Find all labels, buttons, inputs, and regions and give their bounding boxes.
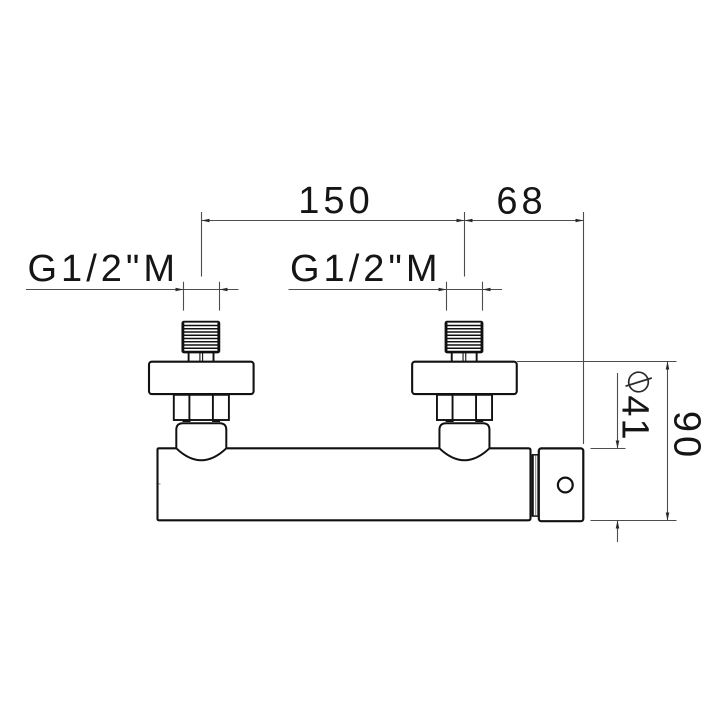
svg-text:41: 41 xyxy=(614,395,656,441)
arrowhead phi41 top xyxy=(616,441,620,449)
arrowhead 68 left xyxy=(465,219,473,223)
threaded stud left nipple xyxy=(182,322,219,353)
flange left nipple xyxy=(149,362,254,394)
washer ticks left nipple xyxy=(183,420,221,422)
boss saddle arc right xyxy=(439,448,489,460)
dimension line 90 xyxy=(667,362,669,521)
centerline tick body left xyxy=(159,483,161,485)
retaining ring xyxy=(532,455,538,516)
extension line at left nipple center xyxy=(201,212,203,277)
hex nut right nipple xyxy=(437,395,492,420)
threaded stud right nipple xyxy=(446,322,483,353)
arrowhead right thread right xyxy=(483,288,491,292)
handle screw hole xyxy=(558,478,573,493)
svg-text:90: 90 xyxy=(666,411,708,461)
arrowhead right thread left xyxy=(439,288,447,292)
boss right nipple xyxy=(439,423,489,448)
extension line bottom shared xyxy=(591,520,677,522)
handle block xyxy=(539,448,584,521)
dimension line 150/68 xyxy=(202,220,584,222)
dimension symbol phi circle xyxy=(629,372,649,392)
extension line phi41 top xyxy=(591,448,626,450)
extension line at handle right end xyxy=(583,212,585,444)
arrowhead 90 bottom xyxy=(666,513,670,521)
boss saddle arc left xyxy=(176,448,226,460)
arrowhead left thread right xyxy=(220,288,228,292)
extension line 90 top xyxy=(517,361,677,363)
thread extension lines right xyxy=(447,282,483,311)
arrowhead 150 right xyxy=(457,219,465,223)
dimension line phi41 xyxy=(617,373,619,542)
svg-text:G1/2"M: G1/2"M xyxy=(290,248,442,290)
leader line right G1/2"M xyxy=(289,289,503,291)
hex nut left nipple xyxy=(174,395,229,420)
svg-text:G1/2"M: G1/2"M xyxy=(28,248,180,290)
leader line left G1/2"M xyxy=(26,289,239,291)
neck right nipple xyxy=(452,353,477,362)
body outline xyxy=(158,448,531,520)
flange right nipple xyxy=(412,362,517,394)
thread extension lines left xyxy=(184,282,220,311)
boss left nipple xyxy=(176,423,226,448)
dimension symbol phi slash xyxy=(626,378,652,386)
arrowhead left thread left xyxy=(176,288,184,292)
arrowhead 68 right xyxy=(576,219,584,223)
arrowhead 90 top xyxy=(666,362,670,370)
svg-text:150: 150 xyxy=(298,180,373,222)
arrowhead phi41 bottom xyxy=(616,521,620,529)
neck left nipple xyxy=(189,353,214,362)
extension line at right nipple center xyxy=(464,212,466,277)
svg-text:68: 68 xyxy=(496,181,546,223)
arrowhead 150 left xyxy=(202,219,210,223)
washer ticks right nipple xyxy=(446,420,484,422)
